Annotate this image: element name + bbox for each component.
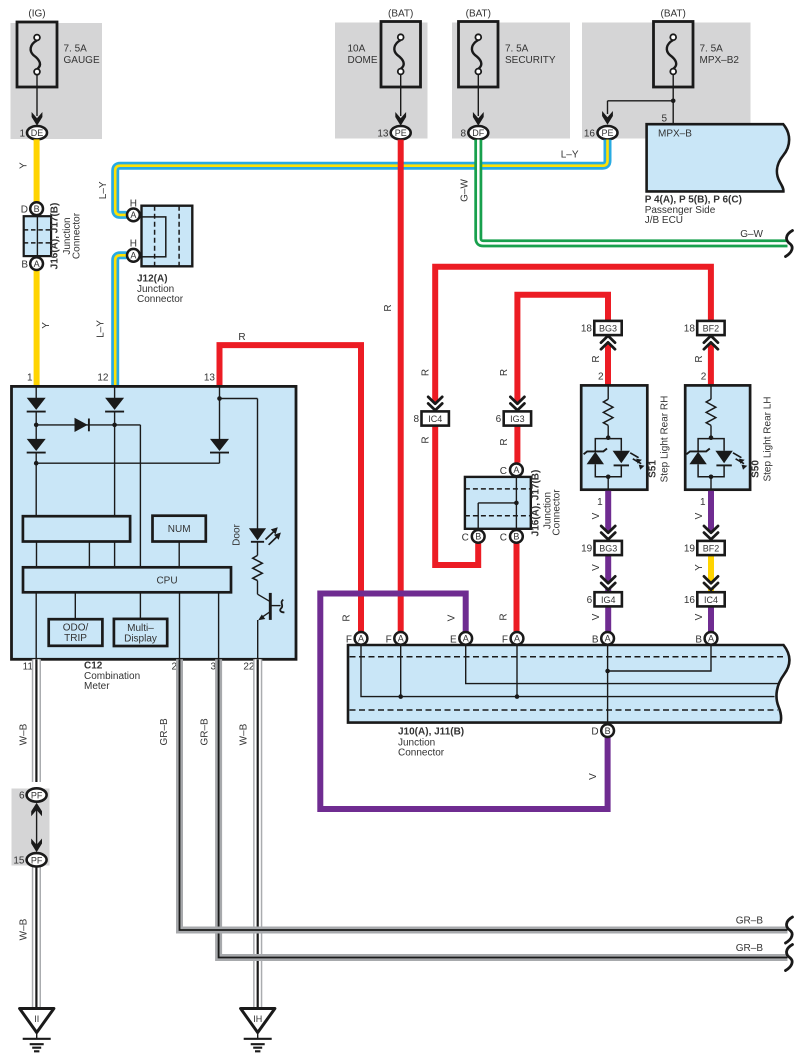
connector label 6 IG4 bbox=[595, 592, 622, 606]
splice block PF background bbox=[12, 789, 50, 866]
wire R from C12 pin 13 over to J10 F(A) bbox=[220, 345, 362, 631]
svg-text:B: B bbox=[513, 532, 519, 542]
svg-text:S51: S51 bbox=[648, 460, 659, 478]
svg-text:BF2: BF2 bbox=[703, 544, 720, 554]
fuse F3 7.5A SECURITY bbox=[459, 22, 499, 88]
S50 LED bbox=[715, 451, 732, 463]
wire V purple loop E(A) to D(B) bbox=[320, 594, 607, 810]
wire R outer loop top bbox=[435, 267, 711, 403]
svg-text:C: C bbox=[500, 533, 507, 544]
S51 internals: resistor bbox=[607, 387, 609, 400]
junction connector J10(A) J11(B) box bbox=[348, 645, 789, 723]
svg-text:BG3: BG3 bbox=[599, 544, 617, 554]
connector label 19 BG3 bbox=[595, 541, 622, 555]
svg-text:6: 6 bbox=[19, 791, 25, 802]
S51 bracket bbox=[595, 439, 621, 452]
svg-text:C: C bbox=[462, 533, 469, 544]
chevron down above 8 IC4 bbox=[428, 397, 442, 410]
svg-text:PF: PF bbox=[31, 791, 43, 801]
svg-text:W–B: W–B bbox=[239, 723, 250, 745]
svg-text:L–Y: L–Y bbox=[561, 150, 579, 161]
wire to node bbox=[35, 412, 37, 440]
svg-text:Connector: Connector bbox=[137, 294, 184, 305]
link between PF terminals with arrows bbox=[36, 808, 38, 848]
svg-text:P 4(A), P 5(B), P 6(C): P 4(A), P 5(B), P 6(C) bbox=[645, 195, 742, 206]
svg-text:Door: Door bbox=[232, 523, 243, 545]
svg-text:R: R bbox=[591, 355, 602, 362]
svg-text:MPX–B: MPX–B bbox=[658, 129, 692, 140]
svg-text:R: R bbox=[238, 332, 245, 343]
junction connector J12(A) bbox=[142, 206, 193, 267]
wire fuse F4 down with branch bbox=[672, 74, 674, 124]
internal box B1 bbox=[23, 516, 130, 541]
svg-text:J10(A), J11(B): J10(A), J11(B) bbox=[398, 727, 464, 738]
svg-text:1: 1 bbox=[19, 128, 25, 139]
svg-text:PE: PE bbox=[601, 128, 613, 138]
svg-text:5: 5 bbox=[661, 114, 667, 125]
diode D1 bbox=[27, 398, 46, 410]
svg-text:F: F bbox=[346, 634, 352, 645]
terminal oval 6 PF bbox=[27, 788, 47, 801]
svg-text:Connector: Connector bbox=[552, 489, 563, 536]
diode D3 bbox=[105, 398, 124, 410]
svg-text:Step Light Rear LH: Step Light Rear LH bbox=[763, 396, 774, 481]
svg-text:TRIP: TRIP bbox=[64, 633, 87, 644]
C12 internal wire pin13 bbox=[219, 388, 221, 440]
svg-text:E: E bbox=[450, 634, 457, 645]
svg-text:18: 18 bbox=[684, 324, 696, 335]
break symbol GR-B upper bbox=[786, 917, 793, 943]
transistor Q1 bbox=[258, 594, 271, 602]
wire R IC4 to J16 C(B) bbox=[435, 426, 478, 566]
break symbol G-W right edge bbox=[786, 231, 793, 257]
combination meter C12 box bbox=[12, 386, 297, 659]
svg-text:13: 13 bbox=[204, 373, 216, 384]
ground IH bbox=[241, 1009, 275, 1033]
ground II bbox=[20, 1009, 54, 1033]
pin C(A) bbox=[510, 464, 523, 477]
svg-text:V: V bbox=[694, 613, 705, 620]
fuse block background MPX-B2 bbox=[582, 23, 751, 139]
svg-text:G–W: G–W bbox=[460, 179, 471, 202]
branch to door LED bbox=[220, 398, 258, 400]
wire V/Y S50 pin1 chain bbox=[708, 491, 714, 532]
connector label 19 BF2 bbox=[697, 541, 724, 555]
connector label 16 IC4 bbox=[697, 592, 724, 606]
chevron up below 18 BF2 bbox=[704, 336, 718, 349]
wire L-Y from 16 PE to J12 upper pin bbox=[115, 140, 607, 215]
fuse block background IG bbox=[11, 23, 103, 139]
chevron down above 19 BG3 bbox=[601, 526, 615, 539]
pin H(A) upper bbox=[127, 209, 140, 222]
svg-text:(BAT): (BAT) bbox=[661, 9, 686, 20]
wire fuse F1 to terminal bbox=[36, 75, 38, 117]
S51 zener diode bbox=[587, 452, 604, 464]
svg-text:B: B bbox=[592, 634, 599, 645]
wire R IG3 to J16 C(A) bbox=[514, 426, 520, 463]
svg-text:Connector: Connector bbox=[398, 748, 445, 759]
svg-text:MPX–B2: MPX–B2 bbox=[700, 55, 740, 66]
svg-text:B: B bbox=[475, 532, 481, 542]
arrow into terminal PE bbox=[395, 112, 406, 126]
svg-text:10A: 10A bbox=[348, 44, 366, 55]
internal box NUM bbox=[153, 516, 206, 542]
svg-text:H: H bbox=[130, 239, 137, 250]
svg-text:A: A bbox=[398, 634, 404, 644]
svg-text:R: R bbox=[383, 304, 394, 311]
connector label 8 IC4 bbox=[422, 411, 449, 425]
svg-text:C: C bbox=[500, 466, 507, 477]
svg-text:1: 1 bbox=[597, 497, 603, 508]
svg-text:8: 8 bbox=[460, 128, 466, 139]
svg-text:7. 5A: 7. 5A bbox=[700, 44, 724, 55]
svg-text:BF2: BF2 bbox=[703, 324, 720, 334]
wire R J16 C(B) to J10 F(A) bbox=[514, 544, 520, 632]
wires B1/NUM to CPU bbox=[36, 542, 38, 568]
internal box ODO/TRIP bbox=[49, 619, 103, 646]
diode D2 lower-left bbox=[27, 439, 46, 451]
fuse F4 7.5A MPX-B2 bbox=[654, 22, 694, 88]
svg-text:GAUGE: GAUGE bbox=[64, 55, 100, 66]
J10 dashed lines bbox=[350, 656, 787, 658]
S50 internals: resistor bbox=[710, 387, 712, 400]
chevron down above 16 IC4 bbox=[704, 576, 718, 589]
svg-text:19: 19 bbox=[581, 544, 593, 555]
svg-text:L–Y: L–Y bbox=[98, 181, 109, 199]
svg-text:6: 6 bbox=[587, 595, 593, 606]
svg-text:8: 8 bbox=[413, 414, 419, 425]
wires below CPU bbox=[35, 592, 37, 658]
svg-text:DOME: DOME bbox=[348, 55, 378, 66]
svg-text:18: 18 bbox=[581, 324, 593, 335]
pin C(B) left bbox=[472, 530, 485, 543]
J10 top pins bbox=[355, 632, 368, 645]
svg-text:L–Y: L–Y bbox=[95, 320, 106, 338]
svg-text:Y: Y bbox=[41, 322, 52, 329]
break symbol GR-B lower bbox=[786, 945, 793, 971]
svg-text:(IG): (IG) bbox=[28, 9, 45, 20]
internal box Multi-Display bbox=[114, 619, 167, 646]
svg-text:A: A bbox=[130, 210, 136, 220]
connector label 6 IG3 bbox=[504, 411, 531, 425]
svg-text:Y: Y bbox=[694, 564, 705, 571]
svg-text:GR–B: GR–B bbox=[736, 943, 764, 954]
arrow into terminal DE bbox=[32, 112, 43, 126]
svg-text:16: 16 bbox=[584, 128, 596, 139]
svg-text:GR–B: GR–B bbox=[159, 718, 170, 746]
arrow into terminal 16 PE bbox=[602, 111, 613, 125]
pin D(B) bbox=[30, 202, 43, 215]
arrow into terminal DF bbox=[473, 112, 484, 126]
C12 internal wire pin12 bbox=[114, 388, 116, 399]
svg-text:IC4: IC4 bbox=[704, 595, 718, 605]
fuse F2 10A DOME bbox=[381, 22, 421, 88]
junction node on MPX wire bbox=[671, 99, 676, 104]
svg-text:15: 15 bbox=[13, 856, 25, 867]
svg-text:V: V bbox=[588, 773, 599, 780]
svg-text:D: D bbox=[591, 727, 598, 738]
svg-text:1: 1 bbox=[27, 373, 33, 384]
wire V S51 pin1 chain bbox=[605, 491, 611, 532]
terminal oval 13 PE bbox=[391, 126, 411, 139]
svg-text:Y: Y bbox=[19, 162, 30, 169]
wire R from DOME 13 PE down to J10 F(A) bbox=[398, 140, 404, 632]
svg-text:V: V bbox=[447, 614, 458, 621]
terminal oval 15 PF bbox=[27, 853, 47, 866]
chevron down above 19 BF2 bbox=[704, 526, 718, 539]
svg-text:B: B bbox=[34, 204, 40, 214]
wire W-B pin 22 to ground IH bbox=[253, 659, 262, 1007]
LED Door bbox=[249, 528, 266, 540]
C12 internal wire pin1 bbox=[35, 388, 37, 399]
junction connector J16(A) J17(B) middle bbox=[465, 477, 531, 529]
svg-text:2: 2 bbox=[598, 372, 604, 383]
svg-text:GR–B: GR–B bbox=[199, 718, 210, 746]
svg-text:A: A bbox=[358, 634, 364, 644]
svg-text:B: B bbox=[605, 726, 611, 736]
svg-text:R: R bbox=[421, 436, 432, 443]
svg-text:A: A bbox=[605, 634, 611, 644]
fuse F1 7.5A GAUGE bbox=[17, 22, 57, 87]
fuse block background SECURITY bbox=[452, 23, 570, 139]
chevron up below 18 BG3 bbox=[601, 336, 615, 349]
S51 LED bbox=[613, 451, 630, 463]
svg-text:PE: PE bbox=[395, 128, 407, 138]
svg-text:12: 12 bbox=[97, 373, 109, 384]
wire fuse F2 to terminal bbox=[400, 74, 402, 116]
svg-text:R: R bbox=[499, 438, 510, 445]
wire R BF2 chevron to S50 pin 2 bbox=[708, 344, 714, 386]
svg-text:IC4: IC4 bbox=[428, 414, 442, 424]
svg-text:DE: DE bbox=[31, 128, 44, 138]
svg-text:SECURITY: SECURITY bbox=[505, 55, 556, 66]
svg-text:F: F bbox=[502, 634, 508, 645]
svg-text:II: II bbox=[34, 1014, 39, 1024]
wire R inner loop top bbox=[517, 295, 608, 403]
pin B(A) bbox=[30, 257, 43, 270]
S50 zener diode bbox=[689, 452, 706, 464]
svg-text:DF: DF bbox=[472, 128, 484, 138]
svg-text:NUM: NUM bbox=[168, 524, 191, 535]
horizontal wire lower bbox=[36, 462, 219, 464]
svg-text:IG4: IG4 bbox=[601, 595, 616, 605]
svg-text:6: 6 bbox=[496, 414, 502, 425]
svg-text:Display: Display bbox=[124, 634, 157, 645]
svg-text:W–B: W–B bbox=[19, 723, 30, 745]
svg-text:1: 1 bbox=[700, 497, 706, 508]
wire GR-B pin 3 to right edge bbox=[219, 659, 788, 957]
svg-text:V: V bbox=[591, 564, 602, 571]
svg-text:A: A bbox=[34, 259, 40, 269]
ECU box Passenger Side J/B ECU bbox=[647, 124, 790, 191]
wire Y connector B(A) to C12 pin 1 bbox=[34, 271, 40, 387]
svg-text:R: R bbox=[499, 369, 510, 376]
svg-text:Meter: Meter bbox=[84, 681, 110, 692]
junction connector J16(A) J17(B) left bbox=[24, 216, 51, 256]
fuse block background DOME bbox=[335, 23, 428, 139]
svg-text:Step Light Rear RH: Step Light Rear RH bbox=[660, 396, 671, 483]
svg-text:IH: IH bbox=[253, 1014, 262, 1024]
wire fuse F3 to terminal bbox=[477, 74, 479, 116]
connector label 18 BF2 bbox=[697, 321, 724, 335]
wire W-B 15 PF to ground II bbox=[32, 866, 41, 1007]
svg-text:A: A bbox=[513, 465, 519, 475]
svg-text:B: B bbox=[695, 634, 702, 645]
svg-text:J/B ECU: J/B ECU bbox=[645, 215, 683, 226]
svg-text:ODO/: ODO/ bbox=[63, 623, 89, 634]
svg-text:R: R bbox=[694, 355, 705, 362]
svg-text:IG3: IG3 bbox=[510, 414, 525, 424]
S50 bracket bbox=[698, 439, 724, 452]
terminal oval 1 DE bbox=[27, 126, 47, 139]
svg-text:16: 16 bbox=[684, 595, 696, 606]
svg-text:F: F bbox=[386, 634, 392, 645]
step light rear LH S50 box bbox=[685, 385, 750, 489]
wire GR-B pin 2 to right edge bbox=[180, 659, 788, 930]
step light rear RH S51 box bbox=[581, 385, 647, 489]
svg-text:A: A bbox=[130, 251, 136, 261]
svg-text:W–B: W–B bbox=[19, 918, 30, 940]
svg-text:GR–B: GR–B bbox=[736, 916, 764, 927]
resistor inside C12 bbox=[257, 542, 259, 556]
svg-text:S50: S50 bbox=[751, 460, 762, 478]
svg-text:A: A bbox=[708, 634, 714, 644]
terminal oval 8 DF bbox=[468, 126, 488, 139]
svg-text:R: R bbox=[421, 369, 432, 376]
svg-text:A: A bbox=[514, 634, 520, 644]
svg-text:H: H bbox=[130, 198, 137, 209]
svg-text:13: 13 bbox=[377, 128, 389, 139]
svg-text:BG3: BG3 bbox=[599, 324, 617, 334]
internal box CPU bbox=[23, 567, 231, 592]
svg-text:V: V bbox=[591, 613, 602, 620]
diode D5 bbox=[210, 439, 229, 451]
wire W-B pin 11 to 6 PF bbox=[32, 659, 41, 782]
wire L-Y from J12 lower pin to C12 pin 12 bbox=[115, 255, 126, 386]
svg-text:A: A bbox=[463, 634, 469, 644]
svg-text:V: V bbox=[694, 512, 705, 519]
svg-text:7. 5A: 7. 5A bbox=[64, 44, 88, 55]
svg-text:(BAT): (BAT) bbox=[388, 9, 413, 20]
pin H(A) lower bbox=[127, 249, 140, 262]
J10 bottom pin D(B) bbox=[601, 724, 614, 737]
connector label 18 BG3 bbox=[594, 321, 621, 335]
svg-text:R: R bbox=[342, 614, 353, 621]
wire G-W from 8 DF to right edge bbox=[478, 140, 787, 244]
svg-text:PF: PF bbox=[31, 855, 43, 865]
svg-text:G–W: G–W bbox=[740, 229, 763, 240]
svg-text:J16(A), J17(B): J16(A), J17(B) bbox=[531, 470, 542, 537]
svg-text:V: V bbox=[591, 512, 602, 519]
J10 internal wiring bbox=[361, 645, 775, 697]
svg-text:7. 5A: 7. 5A bbox=[505, 44, 529, 55]
svg-text:Multi–: Multi– bbox=[127, 623, 154, 634]
wire R BG3 chevron to S51 pin 2 bbox=[605, 344, 611, 386]
wire Y fuse DE to connector D(B) bbox=[34, 139, 40, 202]
svg-text:19: 19 bbox=[684, 544, 696, 555]
svg-text:(BAT): (BAT) bbox=[466, 9, 491, 20]
chevron down above 6 IG4 bbox=[601, 576, 615, 589]
svg-text:Connector: Connector bbox=[72, 212, 83, 259]
svg-text:CPU: CPU bbox=[156, 575, 177, 586]
pin C(B) right bbox=[510, 530, 523, 543]
horizontal wire with diode D4 bbox=[36, 424, 140, 426]
terminal oval 16 PE bbox=[598, 126, 618, 139]
svg-text:R: R bbox=[499, 613, 510, 620]
svg-text:D: D bbox=[21, 205, 28, 216]
chevron down above 6 IG3 bbox=[510, 397, 524, 410]
svg-text:J16(A), J17(B): J16(A), J17(B) bbox=[50, 203, 61, 270]
svg-text:2: 2 bbox=[701, 372, 707, 383]
svg-text:B: B bbox=[21, 259, 28, 270]
